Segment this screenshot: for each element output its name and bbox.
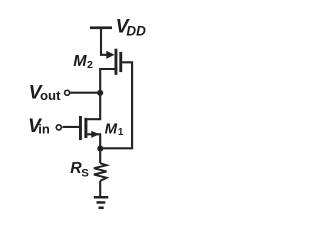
- svg-text:M2: M2: [73, 53, 93, 71]
- svg-text:Vin: Vin: [28, 116, 50, 137]
- svg-text:RS: RS: [70, 160, 89, 179]
- svg-text:M1: M1: [105, 120, 124, 138]
- svg-text:Vout: Vout: [29, 83, 62, 104]
- svg-text:VDD: VDD: [116, 16, 146, 38]
